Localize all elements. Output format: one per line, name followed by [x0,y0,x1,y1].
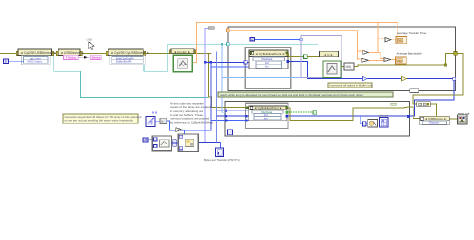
U8 constant [143,138,152,142]
while loop 1 (top big loop) [228,27,456,90]
svg-text:◄ CyUSB USBDeviceList ►: ◄ CyUSB USBDeviceList ► [20,51,61,55]
express VI U3 (elapsed time, green border) [173,55,192,71]
svg-text:◄ CyBulkEndPoint ►: ◄ CyBulkEndPoint ► [255,52,285,56]
svg-text:by reference to CyBulkXferWrap: by reference to CyBulkXferWrap [170,120,213,124]
svg-text:MB|: MB| [346,65,352,69]
for loop around express VI U4 [301,35,342,77]
while loop 2 (bottom big loop) [225,101,410,136]
element array indicator [379,114,389,128]
svg-text:Increment all values in Buffer: Increment all values in Buffer unit [330,84,373,88]
olive error chain top right [354,52,463,105]
svg-text:◄ CyUSB CyUSBDevice ►: ◄ CyUSB CyUSBDevice ► [110,51,150,55]
svg-text:U8: U8 [144,138,148,142]
tunnel box on loop edge [410,89,419,93]
constant B [4,59,24,64]
svg-text:DBL: DBL [397,59,403,63]
small loop around invoke node U1 [245,48,291,89]
svg-text:◄ N ►: ◄ N ► [324,53,334,57]
svg-text:Device: Device [92,56,101,60]
I32 constant [250,38,255,42]
boolean dashed wire + constant [288,111,317,115]
blue I32 count wire [255,38,303,41]
svg-text:element: element [379,114,389,118]
divide T3 [363,50,369,54]
label: green note [218,92,393,97]
node A property rows [22,56,51,65]
svg-text:Average Bandwidth: Average Bandwidth [397,51,422,55]
multiply T1 [385,38,391,42]
blue array wire from cluster to U2 [198,51,249,150]
svg-text:Dispose: Dispose [429,121,440,125]
For Err mini header [169,49,196,54]
frame F2 (in place element structure) [178,134,198,152]
divide T4 [362,58,369,62]
terminals between frames [172,140,179,147]
frame F1 (in place element structure) [152,136,171,151]
svg-text:DBL: DBL [398,38,404,42]
indicator Average Transfer Time [396,31,427,44]
light blue branch wire [221,43,308,116]
svg-text:MSCI Index: MSCI Index [28,60,43,64]
scale icon in bottom loop [368,120,378,128]
svg-text:Each while loop is allocated i: Each while loop is allocated its own thr… [221,93,364,97]
For N mini header [320,51,339,57]
indicator Average Bandwidth [395,51,422,64]
svg-text:Average Transfer Time: Average Transfer Time [397,31,427,35]
svg-text:32: 32 [250,38,254,42]
orange elapsed-time wires [193,23,398,63]
svg-text:◄ USBDevice ►: ◄ USBDevice ► [60,51,84,55]
svg-text:BulkInEndPt: BulkInEndPt [116,60,132,64]
olive wire merge box to dispose [410,104,459,119]
express VI U4 (green border) [323,61,341,78]
small green label in loop2 [391,103,396,105]
multiply T2 [384,58,391,62]
conversion node after U4 [341,63,354,70]
svg-text:T String: T String [66,56,76,60]
invoke node U2 (CyBulkEndPoint XferData bottom) [246,106,288,121]
teal wire 2 (device ref) [144,44,318,71]
ramp aux box [155,118,166,123]
periwinkle size wire [204,27,256,143]
svg-text:8: 8 [5,60,7,64]
iteration terminal i (bottom loop) [228,130,233,135]
merge errors node [417,102,431,107]
label: generate sequential note [63,114,142,123]
invoke node U1 (CyBulkEndPoint XferData) [244,50,289,69]
invoke node U5 (USBDevice Dispose) [420,116,450,124]
node B (express VI box 2: USBDevice) [56,49,84,56]
node C (express VI box 3: CyUSB CyUSBDevice) [106,49,149,56]
node B string rows (pink) [64,55,102,59]
node C property rows [110,56,145,65]
svg-text:◄ For Err ►: ◄ For Err ► [174,50,191,54]
bytes per transfer control [204,148,240,162]
ramp express icon [146,112,157,127]
svg-text:so we are not just sending the: so we are not just sending the same valu… [65,119,134,123]
small n constant in bottom loop [360,116,368,126]
error out indicator [457,112,469,124]
small loop around invoke node U2 [246,103,288,128]
label: increment note [328,83,372,88]
svg-text:len: len [265,65,269,69]
olive wire U1 to For header [289,55,322,59]
olive error wire inside bottom loop [288,107,410,121]
blue thin wire into node U1 [211,66,256,68]
comment text block [170,101,213,124]
node A (express VI box 1: CyUSB USBDeviceList) [16,49,61,56]
main error wire (olive) [0,54,249,108]
svg-text:len: len [264,116,268,120]
teal wire 1 (device list) [54,56,208,98]
cursor icon [87,38,95,50]
multiply T5 [167,121,211,134]
big blue array wire [287,61,456,117]
svg-text:Bytes per Transfer (2^E*2^n): Bytes per Transfer (2^E*2^n) [204,158,240,162]
svg-text:USB: USB [87,38,93,42]
